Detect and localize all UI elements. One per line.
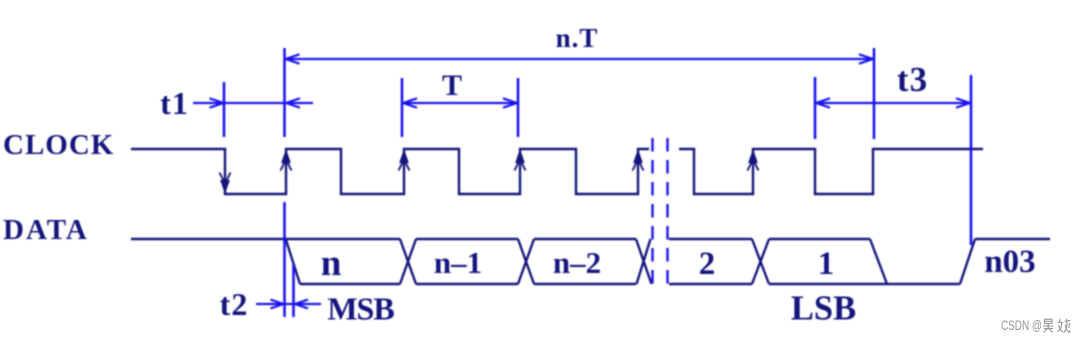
tick t3 left: [814, 77, 817, 139]
wire data bus segment n: [300, 283, 400, 285]
wire data crossover X4: [752, 239, 769, 284]
svg-text:CLOCK: CLOCK: [3, 129, 114, 161]
wire data top line right end: [975, 238, 1050, 240]
dimension T arrow: [403, 98, 518, 107]
watermark glyph wu: [1043, 319, 1054, 332]
dimension t3 arrow: [816, 98, 971, 107]
svg-text:t2: t2: [220, 286, 249, 322]
svg-text:1: 1: [818, 246, 835, 282]
tick tall right: [970, 75, 973, 245]
svg-text:n.T: n.T: [556, 23, 599, 53]
svg-text:LSB: LSB: [791, 290, 856, 328]
dimension t2 arrows: [256, 300, 321, 309]
tick T left: [401, 78, 404, 137]
wire data crossover X1: [400, 239, 416, 284]
arrow clock rising edge 1 up: [281, 151, 292, 171]
wire data crossover X3: [636, 239, 652, 284]
svg-text:CSDN @: CSDN @: [1001, 317, 1042, 333]
arrow clock falling edge 1 down: [220, 173, 231, 193]
arrow clock rising edge 4 up: [633, 151, 644, 171]
wire data final rising diagonal: [960, 239, 975, 284]
svg-text:n–1: n–1: [434, 245, 482, 280]
svg-text:t1: t1: [160, 85, 189, 121]
dimension n.T arrow: [285, 54, 874, 63]
wire clock waveform: [131, 149, 983, 194]
wire data bus segment 1: [769, 239, 887, 284]
discontinuity dashed line right: [666, 138, 668, 288]
svg-text:t3: t3: [897, 60, 928, 99]
tick tall left upper: [283, 48, 286, 137]
dimension t1 arrows: [193, 98, 313, 107]
wire data bus segment 2: [669, 239, 752, 284]
tick T right: [517, 78, 520, 137]
svg-text:n: n: [321, 243, 342, 284]
wire data crossover X2: [518, 239, 534, 284]
arrow clock rising edge 2 up: [399, 151, 410, 171]
tick tall left lower: [283, 202, 286, 317]
svg-text:MSB: MSB: [327, 291, 394, 327]
arrow clock rising edge 5 up: [748, 151, 759, 171]
wire data baseline: [131, 238, 400, 240]
tick nT right: [873, 48, 876, 139]
wire data bus segment n-1: [416, 239, 518, 284]
tick t1 left: [223, 82, 226, 137]
wire data low line after segment 1: [887, 283, 960, 285]
svg-text:T: T: [442, 69, 462, 102]
wire data bus segment n-2: [534, 239, 636, 284]
svg-text:n03: n03: [984, 244, 1035, 280]
discontinuity dashed line left: [651, 138, 653, 288]
watermark glyph e: [1058, 319, 1071, 333]
arrow clock rising edge 3 up: [515, 151, 526, 171]
wire data bus closing diagonal: [870, 239, 887, 284]
svg-text:2: 2: [699, 246, 716, 282]
wire data bus opening diagonal: [286, 240, 300, 284]
svg-text:n–2: n–2: [553, 245, 601, 280]
tick t2 right: [292, 264, 295, 317]
svg-text:DATA: DATA: [3, 214, 89, 246]
